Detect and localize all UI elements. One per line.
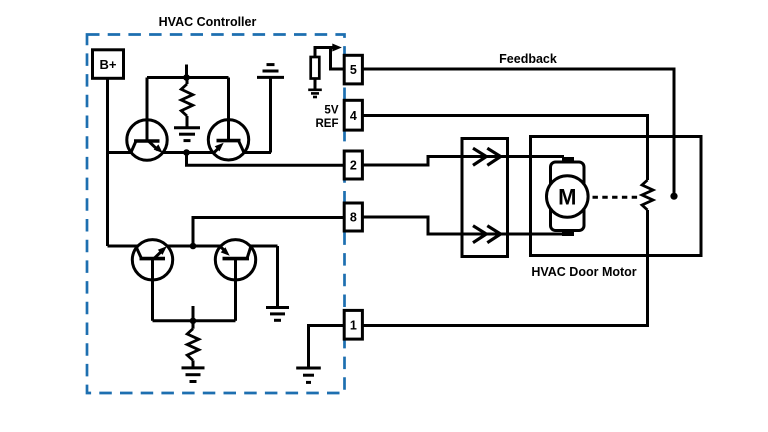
wire: tap to pin 5 xyxy=(331,48,345,70)
wire: Q1 collector lead xyxy=(146,78,149,122)
wire: emitter link xyxy=(153,319,236,322)
pin 5 xyxy=(344,55,362,84)
wire: R2 bottom lead xyxy=(314,79,317,90)
pin 8 xyxy=(344,203,362,231)
svg-text:REF: REF xyxy=(316,118,339,130)
HVAC Controller boundary box (dashed) xyxy=(87,35,345,394)
motor M1 body xyxy=(547,157,589,236)
buffer U1 box xyxy=(462,139,508,257)
wire: bottom base bus xyxy=(108,245,278,248)
wire: Q4 emitter lead xyxy=(234,280,237,321)
label "5V REF" xyxy=(316,105,339,131)
node: feedback wiper junction xyxy=(670,193,677,200)
wire: feedback run xyxy=(363,69,675,196)
wire: R2 top lead xyxy=(315,48,333,58)
wire: Q4 collector to ground xyxy=(276,246,279,308)
node B junction (bottom bus) xyxy=(190,243,197,250)
wire: pin 1 to ground xyxy=(309,326,345,369)
wire: Q3 emitter lead xyxy=(151,280,154,321)
pin 2 xyxy=(344,151,362,179)
svg-text:Feedback: Feedback xyxy=(499,52,557,66)
svg-text:B+: B+ xyxy=(100,57,117,72)
svg-text:1: 1 xyxy=(350,318,357,332)
HVAC Door Motor outer box xyxy=(531,137,702,256)
svg-text:5V: 5V xyxy=(324,105,338,117)
transistor Q4 (PNP, bottom-right) xyxy=(215,240,255,280)
buffer U1 upper chevrons xyxy=(473,148,501,165)
junction (collector link) xyxy=(183,74,190,81)
ground G6 (pin 1) xyxy=(296,368,321,382)
svg-text:5: 5 xyxy=(350,63,357,77)
transistor Q1 (NPN, top-left) xyxy=(127,120,167,160)
wire: R1 bottom lead xyxy=(186,116,189,128)
wire: R3 bottom lead xyxy=(192,360,195,368)
svg-text:4: 4 xyxy=(350,109,357,123)
wire: B+ rail xyxy=(106,78,109,246)
node A junction (top bus) xyxy=(183,149,190,156)
wire: node A to pin 2 xyxy=(187,153,345,166)
wire: Q1-Q2 collector link xyxy=(147,76,229,79)
resistor R2 (feedback sense, box style) xyxy=(311,57,320,79)
wiper arrow (R2 tap) xyxy=(332,44,342,52)
wire: stub above node C xyxy=(192,306,195,321)
resistor R3 (bias, bottom) xyxy=(187,329,199,361)
wire: R1 top lead xyxy=(186,78,189,85)
resistor R1 (bias, top) xyxy=(181,84,193,116)
chassis ground G2 (inverted, top) xyxy=(257,65,284,78)
transistor Q2 (PNP, top-right) xyxy=(208,120,248,160)
wire: node B to pin 8 xyxy=(193,218,344,247)
label "HVAC Door Motor" xyxy=(531,265,636,279)
svg-text:HVAC Door Motor: HVAC Door Motor xyxy=(531,265,636,279)
pin 4 xyxy=(344,100,362,130)
ground G4 (Q4 collector) xyxy=(266,308,289,321)
svg-text:HVAC Controller: HVAC Controller xyxy=(159,15,257,29)
wire: pin 2 to motor + xyxy=(363,157,565,166)
pin 1 xyxy=(344,310,362,339)
label "Feedback" xyxy=(499,52,557,66)
mechanical link (dashed) xyxy=(593,196,642,199)
wire: pin 1 to pot bottom xyxy=(363,210,648,326)
wire: stub above node A xyxy=(185,65,188,78)
wire: Q2 collector lead xyxy=(227,78,230,122)
wire: top base bus xyxy=(108,151,272,154)
svg-text:8: 8 xyxy=(350,211,357,225)
wire: 5V REF run xyxy=(363,116,648,181)
transistor Q3 (NPN, bottom-left) xyxy=(132,240,172,280)
svg-text:M: M xyxy=(558,185,576,210)
ground G5 (under R3) xyxy=(182,368,205,382)
label "HVAC Controller" xyxy=(159,15,257,29)
ground G3 (under R2) xyxy=(308,90,322,97)
wire: chassis ground stem xyxy=(269,77,272,152)
potentiometer R4 xyxy=(642,180,653,210)
battery terminal B+ xyxy=(93,50,124,79)
node C junction (emitter link) xyxy=(190,318,197,325)
svg-text:2: 2 xyxy=(350,159,357,173)
ground G1 (under R1) xyxy=(174,128,200,141)
buffer U1 lower chevrons xyxy=(473,226,501,243)
wire: pin 8 to motor - xyxy=(363,217,565,234)
wire: R3 top lead xyxy=(192,321,195,329)
